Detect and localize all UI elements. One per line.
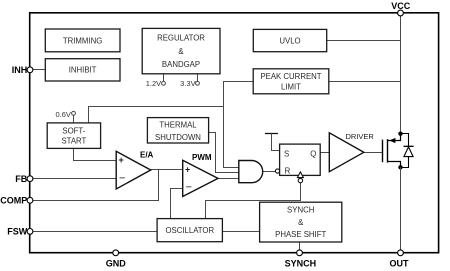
svg-text:−: − <box>186 182 192 194</box>
svg-text:BANDGAP: BANDGAP <box>162 60 200 69</box>
svg-text:REGULATOR: REGULATOR <box>157 33 205 42</box>
svg-text:1.2V: 1.2V <box>146 79 161 88</box>
svg-text:PHASE SHIFT: PHASE SHIFT <box>275 230 326 239</box>
svg-text:E/A: E/A <box>140 151 154 160</box>
svg-text:0.6V: 0.6V <box>55 110 70 119</box>
svg-text:Q: Q <box>310 149 316 158</box>
svg-text:R: R <box>285 167 291 176</box>
svg-text:TRIMMING: TRIMMING <box>63 36 102 45</box>
svg-text:PEAK CURRENT: PEAK CURRENT <box>260 72 321 81</box>
svg-text:PWM: PWM <box>192 153 212 162</box>
svg-text:OSCILLATOR: OSCILLATOR <box>165 226 214 235</box>
svg-text:+: + <box>185 164 190 174</box>
svg-text:COMP: COMP <box>0 196 27 206</box>
svg-text:−: − <box>119 173 125 185</box>
svg-text:INH: INH <box>12 65 28 75</box>
svg-text:FSW: FSW <box>7 226 28 236</box>
svg-text:START: START <box>61 137 86 146</box>
svg-text:FB: FB <box>15 174 27 184</box>
svg-text:DRIVER: DRIVER <box>346 132 375 141</box>
svg-text:&: & <box>178 47 184 56</box>
svg-text:THERMAL: THERMAL <box>159 121 197 130</box>
svg-text:+: + <box>119 155 124 165</box>
svg-text:3.3V: 3.3V <box>180 79 195 88</box>
svg-text:&: & <box>298 218 304 227</box>
svg-text:VCC: VCC <box>391 1 411 11</box>
svg-text:INHIBIT: INHIBIT <box>69 66 97 75</box>
svg-text:GND: GND <box>106 258 127 268</box>
svg-text:UVLO: UVLO <box>279 36 300 45</box>
svg-text:SYNCH: SYNCH <box>285 259 317 269</box>
svg-text:S: S <box>284 150 289 159</box>
svg-text:SYNCH: SYNCH <box>287 205 314 214</box>
svg-text:LIMIT: LIMIT <box>281 82 301 91</box>
svg-text:OUT: OUT <box>390 258 410 268</box>
svg-text:SOFT-: SOFT- <box>62 126 85 135</box>
svg-text:SHUTDOWN: SHUTDOWN <box>155 133 201 142</box>
